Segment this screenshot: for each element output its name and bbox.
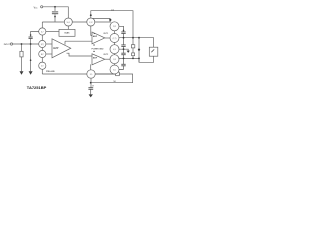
node OUT1 zobel: [132, 37, 134, 39]
pin number labels: [41, 22, 117, 76]
wire pin T2 to BS1 pin: [91, 18, 110, 22]
pin 5 BS2: [110, 65, 119, 74]
svg-text:AMP: AMP: [93, 57, 98, 60]
label A3 minus input: [93, 50, 95, 53]
svg-text:4,9: 4,9: [113, 49, 116, 51]
svg-text:1,12: 1,12: [89, 22, 93, 24]
svg-text:3,8: 3,8: [113, 59, 116, 61]
junction dots: [21, 6, 140, 84]
svg-text:3,5: 3,5: [90, 74, 93, 76]
speaker RL load box: [149, 47, 158, 56]
label A2 plus input: [93, 44, 95, 47]
node BS1 bend: [109, 19, 111, 21]
wire A3 to NF2 pin: [90, 64, 92, 69]
node bootstrap1: [123, 30, 125, 32]
svg-text:INPUT: INPUT: [4, 44, 11, 46]
svg-text:BIAS: BIAS: [65, 32, 71, 35]
svg-text:6,7: 6,7: [41, 31, 44, 33]
pin 3-5 NF2: [87, 70, 95, 78]
label A2 sign: [94, 32, 95, 35]
svg-text:OUT1: OUT1: [103, 33, 108, 35]
IC U1 boundary bottom: [42, 73, 114, 75]
pin 7 power gnd: [110, 45, 119, 54]
resistor R3 zobel: [131, 45, 134, 48]
IC U1 TA7251BP boundary top: [42, 21, 111, 23]
wire power gnd pin: [119, 49, 128, 50]
node cap polarity: [54, 16, 56, 18]
pin 9: [87, 18, 95, 26]
node ripple input crossing: [30, 43, 32, 45]
pin 8 OUT1: [110, 34, 119, 43]
svg-text:OUT2: OUT2: [103, 54, 108, 56]
pin 12 Vcc: [64, 18, 72, 26]
svg-text:AMP: AMP: [93, 35, 98, 38]
pin 1 input: [39, 40, 46, 47]
wire Vcc pin to bias: [67, 26, 69, 29]
wire OUT2 row: [119, 57, 139, 59]
wire IN pin to A1: [46, 43, 52, 45]
wire bias rail to A2: [65, 41, 92, 44]
resistor R1 input bias: [21, 44, 23, 51]
bias block: [59, 29, 75, 36]
terminal input: [10, 43, 12, 45]
pin 2 ripple: [39, 28, 46, 35]
wire NF pin to A1: [46, 53, 52, 55]
op-amp A2 upper output: [92, 32, 105, 44]
wire ripple branch: [31, 32, 39, 38]
wire speaker return: [139, 56, 154, 62]
wire top bootstrap rail: [91, 11, 133, 38]
capacitor C3 bootstrap 1 column: [119, 26, 126, 45]
IC U1 boundary left: [41, 22, 43, 74]
wire Vcc supply: [43, 7, 69, 18]
capacitor C4 output bypass 1: [121, 45, 125, 53]
wire A2 to OUT1 pin: [105, 37, 110, 39]
pin 4 pre-gnd: [39, 62, 46, 69]
capacitor C2 ripple: [29, 37, 33, 38]
wire OUT1 to speaker: [119, 38, 154, 48]
wire lower rail to A3: [67, 53, 93, 56]
capacitor C7 zobel: [132, 53, 135, 56]
zobel column: [132, 38, 134, 45]
svg-text:4,9: 4,9: [41, 66, 44, 68]
speaker glyph: [151, 49, 154, 52]
node OUT2 cap: [123, 58, 125, 60]
node PGND cap: [123, 48, 125, 50]
resistor R2 feedback: [116, 72, 120, 76]
wire T2 pin to A2: [91, 26, 92, 35]
node OUT1 cap: [123, 37, 125, 39]
wire ripple pin to bias: [46, 31, 59, 33]
pin 6 OUT2: [110, 55, 119, 64]
op-amp A1 input stage: [52, 39, 71, 58]
wire output bridge: [138, 38, 140, 63]
svg-text:47: 47: [92, 85, 94, 87]
ground GND4 feedback: [89, 94, 93, 97]
svg-text:11,2: 11,2: [113, 26, 116, 28]
capacitor C5 output bypass 2: [121, 53, 125, 64]
capacitor C8 feedback: [88, 88, 93, 95]
node Vcc cap: [54, 6, 56, 8]
terminal Vcc: [41, 6, 43, 8]
pin 3 NF: [39, 50, 46, 57]
node OUT2 zobel: [132, 58, 134, 60]
node OUT2 end: [138, 58, 140, 60]
node T2 stem: [90, 14, 92, 16]
wire A3 to OUT2 pin: [105, 58, 110, 60]
svg-text:POWER GND: POWER GND: [92, 48, 105, 50]
ground GND3 power: [127, 51, 130, 53]
node NF stem: [90, 82, 92, 84]
node ripple col top: [30, 34, 32, 36]
svg-text:TA7251BP: TA7251BP: [27, 85, 47, 90]
op-amp A3 lower output: [92, 54, 105, 65]
svg-text:10,1: 10,1: [67, 22, 71, 24]
pin circles: [39, 18, 119, 78]
capacitor C1 Vcc decoupling: [52, 7, 58, 22]
svg-text:VCC: VCC: [34, 7, 39, 9]
pin 10 BS1: [110, 22, 119, 31]
wire input: [13, 43, 39, 45]
node bridge mid: [138, 49, 140, 51]
node ripple col mid: [30, 59, 32, 61]
IC U1 boundary right: [114, 26, 116, 74]
svg-text:(2,7): (2,7): [113, 38, 117, 40]
ground GND2 ripple: [29, 71, 33, 75]
svg-text:6,5: 6,5: [113, 69, 116, 71]
svg-text:0.1: 0.1: [111, 9, 114, 11]
node OUT1 bridge: [138, 37, 140, 39]
svg-text:PRE-GND: PRE-GND: [46, 71, 55, 73]
wire NF stem: [90, 78, 92, 87]
capacitor C6 bootstrap 2 column: [119, 64, 126, 69]
svg-text:AMP: AMP: [53, 47, 59, 50]
node input branch: [21, 43, 23, 45]
wire NF loop: [95, 73, 115, 75]
ground GND1 input: [20, 71, 24, 75]
svg-text:1(7): 1(7): [41, 44, 45, 46]
